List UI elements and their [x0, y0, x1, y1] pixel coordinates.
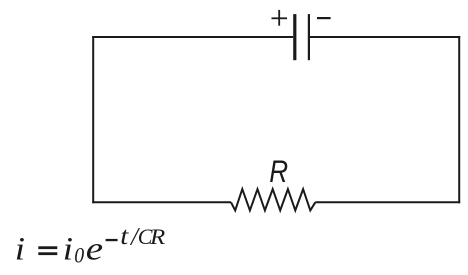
svg-text:i: i: [15, 230, 25, 267]
svg-text:i: i: [63, 230, 73, 267]
svg-text:0: 0: [74, 243, 84, 268]
svg-text:e: e: [86, 230, 103, 267]
svg-text:R: R: [269, 155, 288, 190]
svg-text:R: R: [149, 225, 165, 249]
svg-text:t: t: [120, 222, 130, 250]
